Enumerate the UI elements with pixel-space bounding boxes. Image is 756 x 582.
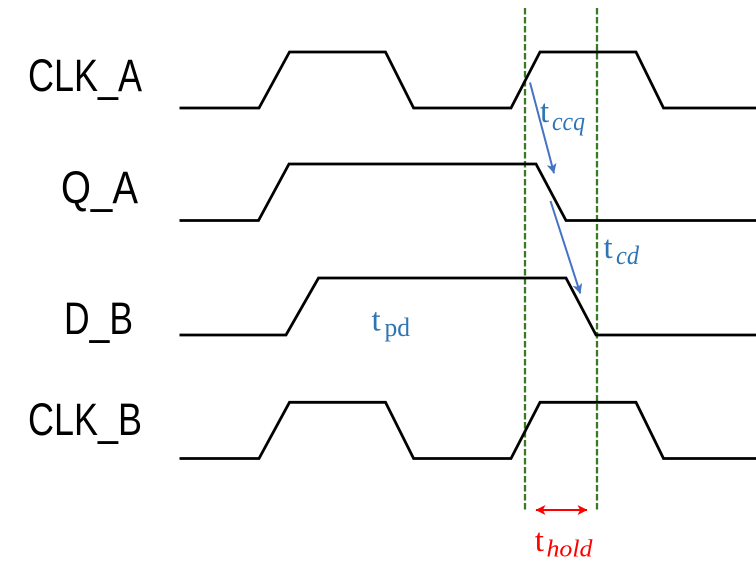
svg-text:D_B: D_B [64, 293, 133, 344]
svg-text:CLK_B: CLK_B [28, 394, 142, 445]
label t_ccq [540, 94, 585, 136]
svg-text:ccq: ccq [552, 107, 585, 136]
dashed guide line 2 (capture edge) [596, 8, 598, 511]
arrow t_cd (Q_A edge to D_B edge) [551, 201, 581, 293]
red double arrow t_hold [536, 509, 587, 511]
waveform D_B [180, 278, 756, 335]
svg-text:Q_A: Q_A [61, 162, 138, 213]
svg-text:pd: pd [385, 313, 411, 342]
label t_hold [535, 523, 594, 563]
svg-text:t: t [535, 523, 544, 559]
waveform Q_A [180, 164, 756, 221]
label t_cd [604, 230, 640, 270]
svg-text:cd: cd [616, 241, 640, 270]
svg-text:CLK_A: CLK_A [28, 50, 142, 101]
svg-text:hold: hold [547, 537, 594, 563]
svg-text:t: t [540, 94, 549, 130]
arrow t_ccq (CLK_A edge to Q_A edge) [530, 83, 554, 174]
label t_pd [372, 303, 411, 343]
svg-text:t: t [372, 303, 381, 339]
svg-text:t: t [604, 230, 613, 266]
waveform CLK_B [180, 402, 756, 458]
dashed guide line 1 (launch edge) [524, 8, 526, 511]
waveform CLK_A [180, 52, 756, 108]
